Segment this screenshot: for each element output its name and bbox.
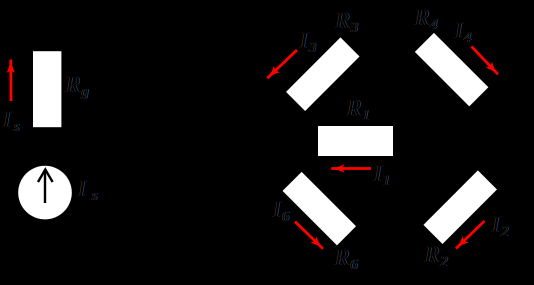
resistor R1 — [318, 126, 393, 156]
label Rg — [64, 72, 90, 100]
current arrow I6 — [295, 222, 323, 249]
label R1 — [345, 96, 370, 124]
svg-text:R2: R2 — [424, 242, 448, 270]
resistor R2 — [423, 170, 497, 244]
label Is — [1, 107, 20, 135]
current arrow I1 — [331, 167, 371, 170]
label Is (source) — [76, 176, 98, 204]
resistor R3 — [286, 37, 360, 111]
label R6 — [333, 245, 359, 273]
current arrow I2 — [456, 221, 485, 249]
label I3 — [298, 28, 317, 56]
resistor R4 — [415, 33, 489, 107]
label R3 — [334, 8, 359, 36]
label R2 — [423, 242, 449, 270]
current arrow Is — [9, 60, 12, 102]
svg-text:R4: R4 — [414, 5, 438, 33]
svg-text:R3: R3 — [335, 8, 359, 36]
label I4 — [453, 18, 472, 46]
svg-text:Rg: Rg — [65, 72, 89, 100]
current source S1 — [18, 166, 72, 220]
current arrow I3 — [267, 50, 297, 78]
svg-text:Is: Is — [77, 176, 98, 204]
label R4 — [413, 5, 439, 33]
svg-text:R1: R1 — [346, 96, 370, 124]
current arrow I4 — [472, 47, 499, 75]
label I6 — [271, 197, 290, 225]
svg-text:R6: R6 — [334, 245, 358, 273]
resistor Rg — [33, 51, 61, 127]
label I2 — [490, 212, 509, 240]
resistor R6 — [283, 172, 357, 246]
label I1 — [372, 161, 391, 189]
